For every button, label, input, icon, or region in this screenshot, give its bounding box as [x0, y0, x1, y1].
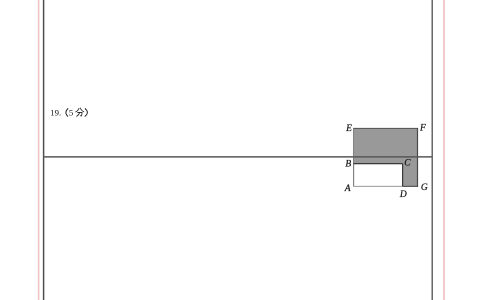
open fullwidth paren — [66, 108, 68, 116]
side AD (bottom, under white rect) — [353, 185, 403, 187]
side FG (right) — [417, 128, 419, 187]
right pink margin rule — [443, 0, 445, 300]
question text: 19. (5 分) — [48, 104, 94, 120]
right dark page border line — [431, 0, 433, 300]
side BC — [354, 163, 403, 165]
rectangle ABCD (white interior) — [354, 164, 402, 186]
geometry figure — [338, 116, 434, 200]
side DG (bottom, under gray strip) — [403, 185, 419, 187]
side EA (left) — [353, 128, 355, 186]
hanzi fen (分) — [76, 108, 84, 116]
side EF (top) — [353, 127, 418, 129]
rectangle AEFG (gray fill) — [354, 128, 417, 185]
side CD — [402, 164, 404, 187]
left dark page border line — [43, 0, 45, 300]
left pink margin rule — [38, 0, 40, 300]
close fullwidth paren — [85, 108, 88, 116]
